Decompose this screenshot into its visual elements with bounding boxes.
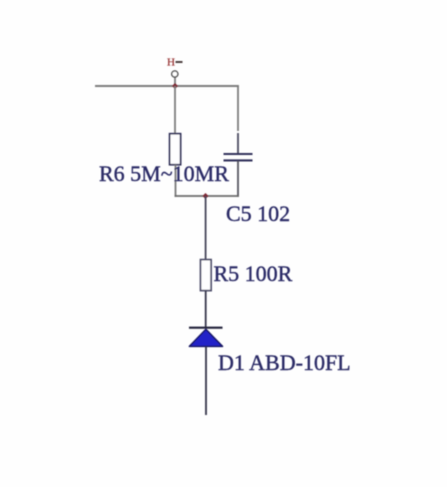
svg-text:R5 100R: R5 100R <box>214 261 293 286</box>
svg-text:H: H <box>167 57 175 69</box>
svg-text:R6 5M~10MR: R6 5M~10MR <box>99 161 229 186</box>
svg-text:C5 102: C5 102 <box>226 201 290 226</box>
svg-text:D1 ABD-10FL: D1 ABD-10FL <box>218 350 351 375</box>
